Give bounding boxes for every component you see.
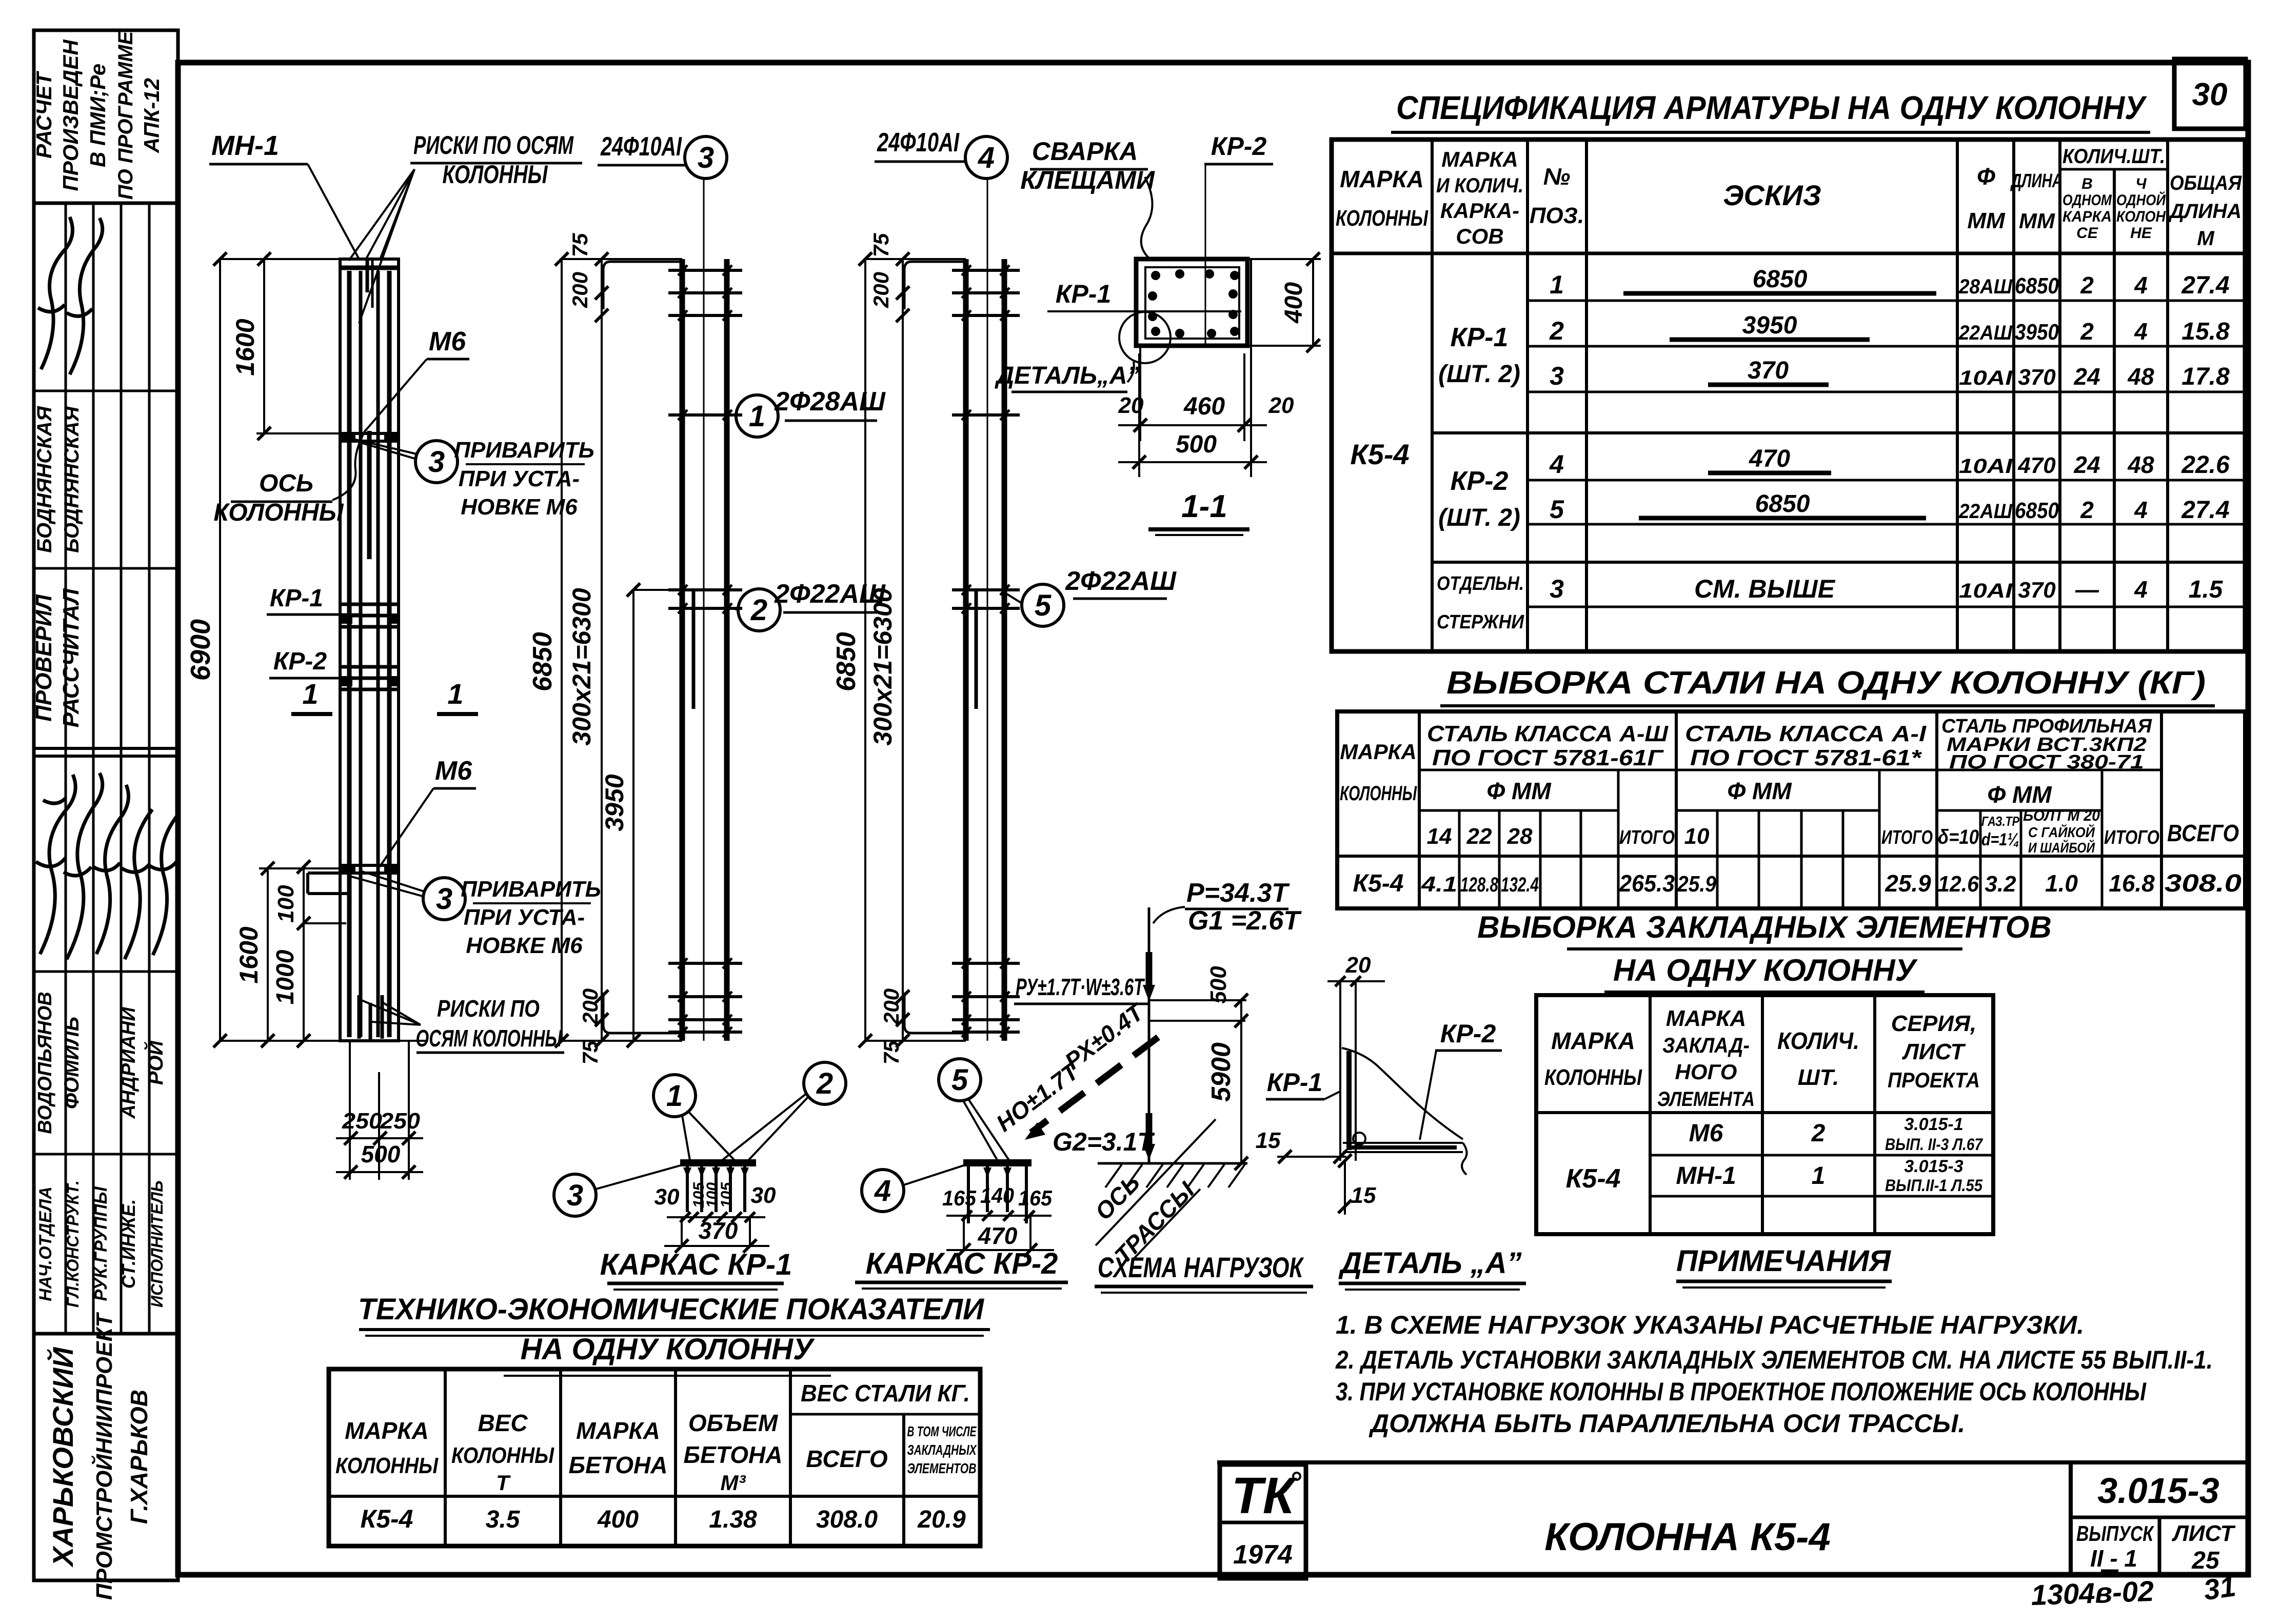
svg-text:В: В [2081,175,2093,192]
svg-text:СТЕРЖНИ: СТЕРЖНИ [1437,611,1524,633]
vypusk/list cells [2158,1517,2161,1575]
svg-text:БЕТОНА: БЕТОНА [569,1452,668,1478]
stamp signatures (middle) [36,775,75,954]
stamp row line [34,971,178,973]
svg-text:М³: М³ [721,1471,746,1495]
svg-text:ВЫП. II-3 Л.67: ВЫП. II-3 Л.67 [1885,1135,1984,1154]
svg-text:КОЛИЧ.: КОЛИЧ. [1777,1027,1859,1054]
svg-text:6850: 6850 [2015,498,2059,523]
svg-text:25.9: 25.9 [1677,872,1716,897]
balloon 2 [804,1062,846,1104]
svg-text:НОВКЕ М6: НОВКЕ М6 [461,494,578,520]
svg-text:КАРКАС КР-1: КАРКАС КР-1 [600,1248,792,1281]
top bracket lines [1149,999,1246,1001]
svg-text:G2=3.1Т: G2=3.1Т [1053,1127,1155,1156]
svg-text:1-1: 1-1 [1181,489,1227,524]
svg-text:НОВКЕ М6: НОВКЕ М6 [466,933,583,958]
svg-text:КОЛОННА К5-4: КОЛОННА К5-4 [1544,1515,1831,1559]
svg-text:4.1: 4.1 [1421,872,1457,896]
svg-text:СЕРИЯ,: СЕРИЯ, [1891,1011,1976,1036]
svg-text:500: 500 [1206,966,1231,1004]
svg-text:МАРКА: МАРКА [576,1417,660,1444]
svg-text:М6: М6 [435,756,472,786]
svg-text:ЛИСТ: ЛИСТ [2172,1521,2236,1546]
svg-text:G1 =2.6Т: G1 =2.6Т [1188,906,1302,936]
svg-text:АНДРИАНИ: АНДРИАНИ [118,1007,140,1119]
svg-text:1: 1 [447,678,463,710]
svg-text:3: 3 [1550,575,1564,603]
svg-text:1: 1 [749,400,765,433]
svg-text:250: 250 [342,1108,383,1134]
svg-text:22: 22 [1466,824,1492,849]
svg-text:3: 3 [698,141,714,174]
svg-text:ВЕС СТАЛИ КГ.: ВЕС СТАЛИ КГ. [801,1380,970,1407]
svg-text:δ=10: δ=10 [1938,826,1979,848]
svg-text:1.0: 1.0 [2045,870,2078,897]
svg-text:ВЫПУСК: ВЫПУСК [2076,1521,2155,1546]
svg-text:ПРИВАРИТЬ: ПРИВАРИТЬ [461,877,601,902]
svg-text:ПО ПРОГРАММЕ: ПО ПРОГРАММЕ [114,30,137,200]
svg-text:75: 75 [879,1040,903,1064]
embed plate M6 lower [341,864,399,867]
svg-text:КОЛОН: КОЛОН [2116,208,2166,225]
detail A dim 20 [1327,980,1385,982]
svg-text:ОДНОЙ: ОДНОЙ [2116,191,2166,209]
axis of route diagonal [1096,1119,1216,1245]
svg-text:ОТДЕЛЬН.: ОТДЕЛЬН. [1437,573,1524,595]
widget Kr-1 dim line 370 [667,1216,765,1218]
svg-text:Ч: Ч [2135,175,2147,192]
dim 500 (column base) [336,1171,423,1173]
svg-text:250: 250 [380,1108,421,1134]
svg-text:1974: 1974 [1233,1540,1293,1570]
svg-text:1600: 1600 [231,319,260,375]
svg-text:МАРКА: МАРКА [1340,166,1424,192]
svg-text:200: 200 [568,272,592,308]
svg-text:ОБЩАЯ: ОБЩАЯ [2170,172,2242,194]
svg-text:ТЕХНИКО-ЭКОНОМИЧЕСКИЕ ПОКАЗАТ: ТЕХНИКО-ЭКОНОМИЧЕСКИЕ ПОКАЗАТЕЛИ [358,1293,984,1326]
svg-text:3.015-3: 3.015-3 [2097,1471,2219,1511]
svg-text:470: 470 [2017,453,2056,478]
svg-text:И КОЛИЧ.: И КОЛИЧ. [1436,174,1523,197]
svg-text:6850: 6850 [528,632,558,691]
svg-text:ДЛИНА: ДЛИНА [2168,200,2242,223]
svg-text:15: 15 [1351,1183,1376,1208]
detail A wavy break line [1342,1048,1463,1139]
detail A circle on section corner [1119,312,1171,363]
handwritten archive number [2031,1575,2154,1611]
svg-text:2Ф22АШ: 2Ф22АШ [1065,566,1177,596]
svg-text:Ф ММ: Ф ММ [1486,778,1552,804]
svg-text:ПО ГОСТ 5781-61Г: ПО ГОСТ 5781-61Г [1432,745,1664,770]
svg-text:ЗАКЛАД-: ЗАКЛАД- [1662,1033,1750,1057]
svg-text:МН-1: МН-1 [1676,1162,1736,1190]
svg-text:№: № [1543,163,1571,190]
svg-text:ПРОМСТРОЙНИИПРОЕКТ: ПРОМСТРОЙНИИПРОЕКТ [91,1312,117,1600]
svg-text:Ф: Ф [1977,163,1995,190]
svg-text:470: 470 [1749,445,1790,472]
svg-text:Т: Т [496,1471,511,1495]
svg-text:КОЛОННЫ: КОЛОННЫ [335,1453,439,1478]
svg-text:КР-2: КР-2 [273,648,327,675]
svg-text:2: 2 [2080,272,2094,299]
svg-text:ВСЕГО: ВСЕГО [806,1445,888,1472]
svg-text:24Ф10АI: 24Ф10АI [600,132,682,162]
svg-text:ИСПОЛНИТЕЛЬ: ИСПОЛНИТЕЛЬ [148,1180,166,1308]
svg-text:165: 165 [942,1186,977,1210]
svg-text:1.5: 1.5 [2189,576,2224,603]
svg-text:М: М [2197,227,2215,250]
dim 400 (section) [1247,258,1321,260]
code box 3.015-3 [2069,1462,2073,1575]
svg-text:308.0: 308.0 [2165,870,2242,897]
svg-text:132.4: 132.4 [1501,874,1539,896]
svg-text:4: 4 [874,1174,891,1207]
svg-text:ОДНОМ: ОДНОМ [2062,192,2112,209]
svg-text:1000: 1000 [272,949,299,1004]
svg-text:75: 75 [578,1040,602,1064]
svg-text:ГЛ.КОНСТРУКТ.: ГЛ.КОНСТРУКТ. [64,1180,82,1308]
svg-text:КР-1: КР-1 [1451,323,1509,352]
svg-text:СЕ: СЕ [2076,225,2098,242]
stamp signatures (top) [38,217,72,369]
svg-text:75: 75 [568,233,592,257]
svg-text:1600: 1600 [234,926,263,983]
svg-text:НА ОДНУ КОЛОННУ: НА ОДНУ КОЛОННУ [521,1333,815,1366]
svg-text:10: 10 [1684,824,1710,849]
svg-text:В ТОМ ЧИСЛЕ: В ТОМ ЧИСЛЕ [907,1423,977,1439]
svg-text:500: 500 [361,1141,401,1167]
svg-text:БОДНЯНСКАЯ: БОДНЯНСКАЯ [61,406,83,553]
svg-text:2Ф28АШ: 2Ф28АШ [774,387,886,417]
section 1-1 square [1136,259,1247,346]
svg-text:4: 4 [1549,450,1564,479]
svg-text:20: 20 [1268,393,1294,418]
dim 1600 (bottom) [267,868,269,1041]
svg-text:20: 20 [1345,953,1371,978]
svg-text:КАРКАС КР-2: КАРКАС КР-2 [866,1247,1058,1280]
reinforcement cage Kr-1 elevation [680,259,685,1041]
svg-text:СМ. ВЫШЕ: СМ. ВЫШЕ [1694,575,1836,603]
svg-text:6850: 6850 [831,632,861,691]
technical-economic indicators table [329,1369,980,1546]
svg-text:48: 48 [2127,451,2154,478]
svg-text:ГАЗ.ТР: ГАЗ.ТР [1981,814,2020,829]
svg-text:ДЕТАЛЬ „А”: ДЕТАЛЬ „А” [1338,1246,1521,1280]
svg-text:КАРКА: КАРКА [2062,208,2112,225]
svg-text:6850: 6850 [1755,490,1810,518]
title block divider TK [1304,1462,1308,1575]
svg-text:3: 3 [436,882,452,916]
svg-text:КОЛОННЫ: КОЛОННЫ [451,1443,554,1468]
svg-text:НОГО: НОГО [1675,1060,1737,1084]
balloon 1 [653,1075,696,1117]
svg-text:РУ±1.7Т·W±3.6Т: РУ±1.7Т·W±3.6Т [1016,974,1145,1000]
stamp row line [34,747,178,750]
stamp row line [34,1153,178,1156]
svg-text:ПО ГОСТ 380-71: ПО ГОСТ 380-71 [1949,751,2144,773]
svg-text:ИТОГО: ИТОГО [1881,827,1933,848]
column embed M6 mid-bar [367,431,372,559]
svg-text:17.8: 17.8 [2181,363,2230,390]
svg-text:3950: 3950 [1742,312,1797,339]
dim 250+250 [349,1041,351,1180]
svg-text:25: 25 [2191,1547,2220,1574]
svg-text:ПРИМЕЧАНИЯ: ПРИМЕЧАНИЯ [1676,1244,1892,1278]
svg-text:1: 1 [1550,270,1564,299]
svg-text:К5-4: К5-4 [1353,870,1404,897]
load arrow P (down) [1146,952,1153,987]
svg-text:КР-2: КР-2 [1211,132,1267,161]
svg-text:2. ДЕТАЛЬ УСТАНОВКИ ЗАКЛАДНЫ: 2. ДЕТАЛЬ УСТАНОВКИ ЗАКЛАДНЫХ ЭЛЕМЕНТОВ … [1335,1345,2213,1374]
svg-text:ЗАКЛАДНЫХ: ЗАКЛАДНЫХ [907,1442,978,1458]
svg-text:РАССЧИТАЛ: РАССЧИТАЛ [58,588,84,728]
balloon 3 (widget leader) [554,1174,596,1216]
title block top line [1217,1460,2248,1464]
svg-text:ПРИ УСТА-: ПРИ УСТА- [464,905,585,930]
svg-text:470: 470 [978,1222,1018,1249]
dim 1600 (top) [263,259,265,433]
svg-text:4: 4 [2134,272,2148,299]
embedded elements table [1536,995,1993,1234]
svg-text:НАЧ.ОТДЕЛА: НАЧ.ОТДЕЛА [36,1186,55,1301]
svg-text:370: 370 [1748,357,1789,384]
svg-text:6900: 6900 [185,619,216,681]
svg-text:ВЫП.II-1 Л.55: ВЫП.II-1 Л.55 [1885,1176,1983,1195]
svg-text:ДОЛЖНА БЫТЬ ПАРАЛЛЕЛЬНА ОСИ: ДОЛЖНА БЫТЬ ПАРАЛЛЕЛЬНА ОСИ ТРАССЫ. [1368,1409,1965,1438]
svg-text:10АI: 10АI [1959,367,2013,389]
column K5-4 elevation outline [340,259,399,1041]
balloon 5 [939,1059,981,1101]
svg-text:75: 75 [869,233,893,257]
svg-text:ИТОГО: ИТОГО [2104,827,2159,848]
balloon 5 label 2ф22АIII [1022,584,1064,626]
svg-text:ЭСКИЗ: ЭСКИЗ [1723,179,1821,211]
svg-text:2: 2 [1549,316,1564,345]
svg-text:Ф ММ: Ф ММ [1727,778,1792,804]
svg-text:М6: М6 [1689,1120,1723,1147]
svg-text:ПРИВАРИТЬ: ПРИВАРИТЬ [454,438,594,463]
svg-text:ЭЛЕМЕНТОВ: ЭЛЕМЕНТОВ [907,1460,977,1476]
svg-text:ОБЪЕМ: ОБЪЕМ [688,1410,779,1436]
diagonal load arrow Но/Рх [1031,1037,1158,1133]
svg-text:10АI: 10АI [1959,455,2013,478]
svg-text:15.8: 15.8 [2181,318,2230,345]
svg-text:1: 1 [666,1079,683,1113]
svg-text:ММ: ММ [2019,209,2055,233]
svg-text:И ШАЙБОЙ: И ШАЙБОЙ [2028,839,2095,856]
svg-text:4: 4 [2134,497,2148,523]
balloon 4 [862,1170,904,1212]
svg-text:400: 400 [597,1506,639,1533]
column bottom risk marks [358,995,361,1039]
svg-text:НЕ: НЕ [2130,225,2152,242]
svg-text:1304в-02: 1304в-02 [2031,1575,2154,1611]
svg-text:460: 460 [1183,393,1225,420]
svg-text:370: 370 [699,1217,738,1244]
svg-text:5: 5 [1550,495,1564,524]
svg-text:200: 200 [578,988,602,1025]
svg-text:КР-1: КР-1 [1056,280,1112,308]
svg-text:ТК: ТК [1232,1467,1298,1524]
svg-text:400: 400 [1280,282,1307,324]
svg-text:КР-1: КР-1 [270,585,323,612]
svg-text:3: 3 [1550,362,1564,390]
svg-text:3950: 3950 [2015,320,2059,345]
dims 20/460/20 and 500 (section) [1139,346,1141,441]
Kr-1 tie marks on column [340,603,399,606]
svg-text:ИТОГО: ИТОГО [1619,827,1675,848]
svg-text:М6: М6 [429,327,466,357]
dim 500 (load diagram) [1240,1000,1242,1163]
column axis risk marks (top) [366,259,369,292]
svg-text:2: 2 [816,1067,833,1100]
svg-text:12.6: 12.6 [1938,872,1979,897]
svg-text:ЛИСТ: ЛИСТ [1902,1039,1966,1064]
svg-text:2: 2 [1811,1120,1826,1147]
svg-text:КОЛИЧ.ШТ.: КОЛИЧ.ШТ. [2062,145,2165,168]
svg-text:АПК-12: АПК-12 [140,78,164,153]
axis of route underline 2 [1135,1189,1200,1258]
svg-text:КОЛОННЫ: КОЛОННЫ [1340,782,1417,805]
svg-text:5: 5 [951,1063,968,1097]
left stamp column outer box [34,30,178,1580]
svg-text:СТ.ИНЖЕ.: СТ.ИНЖЕ. [118,1199,139,1289]
svg-text:ПОЗ.: ПОЗ. [1530,203,1584,228]
stamp column line [120,203,123,1334]
svg-text:1: 1 [1812,1162,1826,1190]
svg-text:II - 1: II - 1 [2090,1545,2137,1572]
svg-text:Г.ХАРЬКОВ: Г.ХАРЬКОВ [126,1390,152,1524]
detail A bottom bar (Kr-2) [1343,1142,1463,1144]
svg-text:370: 370 [2018,578,2056,603]
svg-text:24: 24 [2073,363,2100,390]
svg-text:22.6: 22.6 [2181,451,2230,479]
TK logo box [1220,1464,1306,1578]
svg-text:265.3: 265.3 [1619,870,1675,897]
svg-text:КАРКА-: КАРКА- [1440,199,1519,223]
svg-text:d=1¼: d=1¼ [1981,830,2019,849]
svg-text:3.2: 3.2 [1985,872,2016,897]
embed plate M6 upper [341,432,399,435]
weld note balloon 3 (lower) [423,878,465,920]
svg-text:25.9: 25.9 [1885,870,1931,897]
dim 6900 [219,259,221,1041]
detail A dim 15 (bottom) [1344,1161,1346,1215]
svg-text:200: 200 [879,988,903,1025]
svg-text:2Ф22АШ: 2Ф22АШ [774,579,886,609]
svg-text:22АШ: 22АШ [1958,322,2013,344]
svg-text:48: 48 [2127,363,2154,390]
svg-text:1. В СХЕМЕ НАГРУЗОК УКАЗАНЫ: 1. В СХЕМЕ НАГРУЗОК УКАЗАНЫ РАСЧЕТНЫЕ НА… [1336,1311,2084,1339]
svg-text:МАРКА: МАРКА [1441,147,1518,171]
column longitudinal rebars [347,271,352,1037]
svg-text:ФОМИЛЬ: ФОМИЛЬ [61,1017,83,1109]
svg-text:КОЛОННЫ: КОЛОННЫ [1336,206,1429,231]
svg-text:В ПМИ;Ре: В ПМИ;Ре [86,64,110,167]
svg-text:31: 31 [2201,1570,2237,1606]
stamp row line [34,202,178,205]
svg-text:20.9: 20.9 [917,1506,966,1533]
svg-text:3.015-1: 3.015-1 [1904,1115,1963,1134]
svg-text:14: 14 [1427,824,1452,849]
svg-text:20: 20 [1118,393,1144,418]
Kr-2 cage cross bar plan widget [963,1159,1032,1166]
svg-text:24Ф10АI: 24Ф10АI [877,128,960,157]
balloon 2 label 2ф22АIII [738,589,780,631]
stamp row line [34,390,178,392]
svg-text:15: 15 [1256,1128,1281,1153]
svg-text:2: 2 [2080,318,2094,345]
svg-text:10АI: 10АI [1959,580,2013,602]
svg-text:140: 140 [980,1183,1014,1207]
svg-text:500: 500 [1176,431,1217,458]
svg-text:3: 3 [428,445,445,479]
reinforcement specification table [1332,140,2245,651]
svg-text:5900: 5900 [1206,1042,1236,1102]
svg-text:308.0: 308.0 [816,1506,878,1533]
labels P=34.3т G1=2.6т [1153,907,1185,923]
svg-text:105: 105 [718,1182,735,1208]
svg-text:1: 1 [302,678,318,710]
svg-text:БОДНЯНСКАЯ: БОДНЯНСКАЯ [33,406,56,553]
svg-text:ПРОВЕРИЛ: ПРОВЕРИЛ [31,594,56,721]
svg-text:КОЛОННЫ: КОЛОННЫ [1544,1065,1642,1090]
svg-text:3. ПРИ УСТАНОВКЕ КОЛОННЫ В: 3. ПРИ УСТАНОВКЕ КОЛОННЫ В ПРОЕКТНОЕ ПОЛ… [1336,1377,2147,1406]
svg-text:ВЫБОРКА ЗАКЛАДНЫХ ЭЛЕМЕНТОВ: ВЫБОРКА ЗАКЛАДНЫХ ЭЛЕМЕНТОВ [1477,910,2052,944]
svg-text:СПЕЦИФИКАЦИЯ АРМАТУРЫ НА ОД: СПЕЦИФИКАЦИЯ АРМАТУРЫ НА ОДНУ КОЛОННУ [1396,89,2147,126]
dim 1000 and 100 [303,867,305,1041]
svg-text:РИСКИ ПО ОСЯМ: РИСКИ ПО ОСЯМ [413,131,574,160]
detail A dim 15 (left) [1277,1156,1346,1158]
sheet number box 30 [2174,59,2246,129]
svg-text:30: 30 [654,1184,680,1210]
svg-text:ММ: ММ [1967,208,2006,233]
detail A vertical bar (Kr-1) [1339,981,1341,1161]
svg-text:1.38: 1.38 [709,1506,757,1533]
svg-text:КР-2: КР-2 [1440,1019,1496,1048]
svg-text:ПРОИЗВЕДЕН: ПРОИЗВЕДЕН [58,39,83,191]
svg-text:ВЕС: ВЕС [478,1410,528,1436]
svg-text:ВСЕГО: ВСЕГО [2167,820,2239,846]
svg-text:4: 4 [2134,318,2148,345]
svg-text:МАРКА: МАРКА [345,1417,429,1444]
svg-text:СОВ: СОВ [1456,224,1503,248]
svg-text:ДЕТАЛЬ„А”: ДЕТАЛЬ„А” [994,362,1139,389]
svg-text:(ШТ. 2): (ШТ. 2) [1438,361,1520,388]
Kr-2 tie marks on column [340,665,399,669]
stamp row line [34,567,178,570]
svg-text:КР-1: КР-1 [1267,1068,1323,1097]
svg-text:ЭЛЕМЕНТА: ЭЛЕМЕНТА [1657,1088,1755,1111]
svg-text:30: 30 [2192,77,2228,112]
svg-text:4: 4 [978,141,995,174]
svg-text:27.4: 27.4 [2181,272,2229,299]
load diagram pole [1148,907,1151,1163]
bottom arrow G2 [1146,1113,1153,1146]
svg-text:2: 2 [750,593,767,627]
svg-text:4: 4 [2134,576,2148,603]
svg-text:ОСЬ: ОСЬ [259,470,313,497]
svg-text:ПО ГОСТ 5781-61*: ПО ГОСТ 5781-61* [1690,745,1922,770]
svg-text:МАРКА: МАРКА [1666,1006,1747,1031]
Kr-1 cage cross bar plan widget [680,1159,756,1166]
svg-text:6850: 6850 [2015,273,2059,299]
svg-text:3.015-3: 3.015-3 [1904,1157,1963,1176]
svg-text:16.8: 16.8 [2109,870,2155,897]
svg-text:370: 370 [2018,365,2056,390]
svg-text:БЕТОНА: БЕТОНА [684,1441,783,1468]
